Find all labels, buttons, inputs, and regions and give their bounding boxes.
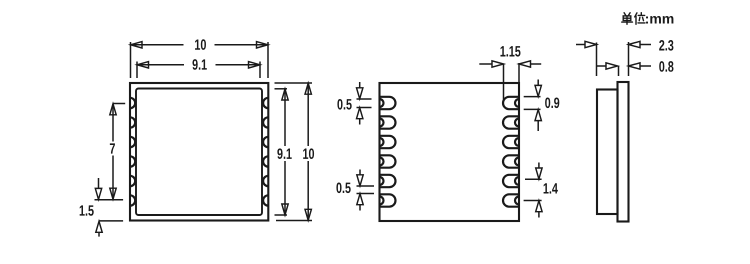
- dimension 9.1 (inner width, top): [137, 59, 260, 78]
- dimension 0.9 (pad height): [524, 80, 560, 132]
- dimension 10 (outer width, top): [131, 39, 269, 78]
- dimension 0.8 (PCB thickness): [597, 61, 673, 76]
- castellation half-holes, top view left edge: [130, 98, 135, 206]
- castellation half-holes, top view right edge: [263, 98, 268, 206]
- extension line at last pin: [95, 199, 124, 201]
- dimension 2.3 (total thickness): [576, 40, 673, 76]
- module bottom view body outline: [380, 83, 520, 221]
- dimension 9.1 (inner height, right): [275, 89, 294, 215]
- module top view outer body outline: [130, 83, 268, 221]
- dimension 1.5 (last pin to bottom edge): [80, 178, 123, 237]
- side view shield can outline: [597, 90, 618, 215]
- dimension 0.5 (top castellation dia.): [337, 82, 371, 125]
- dimension 1.4 (pad pitch): [524, 163, 558, 218]
- dimension 0.5 (pad gap): [336, 170, 374, 211]
- title text 单位:mm: [622, 13, 674, 25]
- side view PCB outline: [618, 82, 629, 222]
- module top view inner shield outline: [136, 89, 262, 216]
- solder pads, bottom view left edge: [380, 97, 396, 207]
- dimension 1.15 (pad length): [479, 46, 541, 99]
- solder pads, bottom view right edge: [503, 97, 519, 207]
- dimension 10 (outer height, right): [275, 83, 316, 221]
- dimension 7 (pin row span, left): [110, 104, 125, 200]
